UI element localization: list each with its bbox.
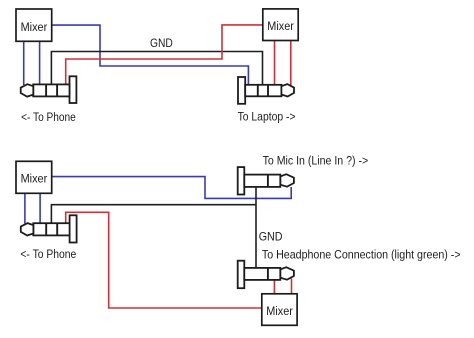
svg-text:<- To Phone: <- To Phone	[21, 110, 76, 124]
svg-text:GND: GND	[150, 36, 173, 50]
svg-text:Mixer: Mixer	[267, 19, 294, 33]
svg-text:Mixer: Mixer	[21, 171, 48, 185]
svg-text:To Mic In (Line In ?) ->: To Mic In (Line In ?) ->	[263, 153, 369, 167]
svg-text:To Laptop ->: To Laptop ->	[238, 110, 296, 124]
svg-text:<- To Phone: <- To Phone	[20, 247, 76, 261]
svg-text:To Headphone Connection (light: To Headphone Connection (light green) ->	[262, 248, 461, 262]
svg-text:Mixer: Mixer	[21, 20, 48, 34]
svg-text:GND: GND	[259, 229, 283, 243]
svg-text:Mixer: Mixer	[266, 304, 293, 318]
